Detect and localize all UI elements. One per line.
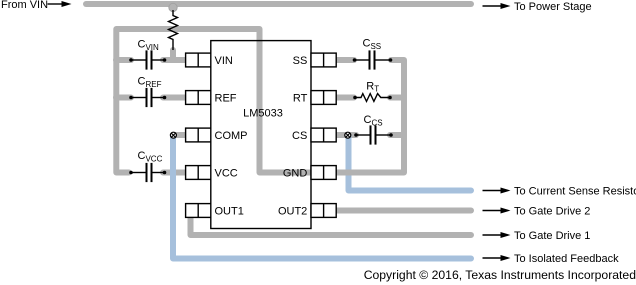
- node: COMP summing node (circled X): [170, 132, 176, 138]
- wire: REF pin stub: [163, 95, 187, 101]
- svg-text:To Current Sense Resistor: To Current Sense Resistor: [514, 186, 636, 198]
- svg-text:REF: REF: [215, 93, 237, 105]
- annotation arrow: To Power Stage: [483, 3, 511, 9]
- resistor (VIN dropping resistor, vertical): [169, 10, 178, 50]
- capacitor CREF: [129, 88, 166, 107]
- pin box OUT1: [186, 204, 211, 218]
- wire: COMP to isolated feedback (blue): [173, 136, 471, 259]
- annotation arrow: From VIN: [48, 1, 72, 7]
- wire: VIN pin stub with resistor drop: [163, 50, 187, 60]
- svg-text:CVIN: CVIN: [138, 39, 160, 53]
- svg-text:SS: SS: [293, 55, 308, 67]
- pin box COMP: [186, 128, 211, 142]
- wire: bus stub to CVIN: [116, 57, 131, 63]
- svg-text:Copyright © 2016, Texas Instru: Copyright © 2016, Texas Instruments Inco…: [364, 268, 636, 282]
- IC U1 LM5033 body: [211, 41, 311, 229]
- pin box VCC: [186, 166, 211, 180]
- pin box OUT2: [311, 204, 336, 218]
- pin box SS: [311, 53, 336, 67]
- wire: OUT1 to gate drive 1 (gray): [191, 212, 472, 235]
- wire: OUT2 to gate drive 2 (gray): [335, 208, 471, 214]
- pin box GND: [311, 166, 336, 180]
- svg-text:GND: GND: [283, 168, 308, 180]
- svg-text:LM5033: LM5033: [243, 108, 283, 120]
- resistor RT (horizontal): [353, 94, 392, 102]
- node: junction dot on VIN rail: [169, 3, 177, 11]
- svg-text:OUT2: OUT2: [278, 206, 307, 218]
- svg-text:OUT1: OUT1: [215, 206, 244, 218]
- wire: VIN power rail (thick gray): [86, 1, 471, 7]
- wire: RT to right bus: [390, 95, 404, 101]
- wire: SS pin stub: [335, 57, 354, 63]
- annotation arrow: To Current Sense Resistor: [483, 188, 511, 194]
- wire: GND to right bus (gray, drawn over blue): [336, 170, 404, 176]
- svg-text:CSS: CSS: [363, 38, 382, 52]
- svg-text:RT: RT: [293, 93, 308, 105]
- node: CS summing node (circled X): [345, 132, 351, 138]
- svg-text:From VIN: From VIN: [1, 0, 48, 11]
- svg-text:CVCC: CVCC: [138, 150, 163, 164]
- pin box REF: [186, 91, 211, 105]
- capacitor CSS: [353, 50, 393, 69]
- svg-text:CCS: CCS: [364, 114, 383, 128]
- pin box CS: [311, 128, 336, 142]
- annotation arrow: To Isolated Feedback: [483, 255, 511, 261]
- capacitor CCS: [354, 125, 393, 144]
- svg-text:CS: CS: [292, 130, 307, 142]
- svg-text:To Gate Drive 1: To Gate Drive 1: [514, 230, 590, 242]
- svg-text:To Isolated Feedback: To Isolated Feedback: [514, 253, 619, 265]
- svg-text:COMP: COMP: [215, 130, 248, 142]
- svg-text:RT: RT: [366, 81, 379, 94]
- annotation arrow: To Gate Drive 1: [483, 232, 511, 238]
- pin box VIN (pin 1): [186, 53, 211, 67]
- svg-text:VIN: VIN: [215, 55, 233, 67]
- capacitor CVIN: [129, 50, 166, 69]
- svg-text:CREF: CREF: [138, 76, 162, 90]
- wire: VCC pin stub: [163, 170, 187, 176]
- wire: bus stub to CREF: [116, 95, 131, 101]
- capacitor CVCC: [129, 163, 166, 182]
- wire: RT pin stub: [335, 95, 354, 101]
- pin box RT: [311, 91, 336, 105]
- annotation arrow: To Gate Drive 2: [483, 208, 511, 214]
- wire: CS to current sense resistor (blue): [349, 136, 472, 191]
- wire: CCS to right bus: [390, 132, 404, 138]
- ground bus loop (thick gray): [116, 29, 404, 173]
- svg-text:To Gate Drive 2: To Gate Drive 2: [514, 206, 590, 218]
- wire: COMP pin stub: [174, 132, 187, 138]
- svg-text:VCC: VCC: [215, 168, 238, 180]
- svg-text:To Power Stage: To Power Stage: [514, 1, 592, 13]
- wire: CS pin stub: [335, 132, 356, 138]
